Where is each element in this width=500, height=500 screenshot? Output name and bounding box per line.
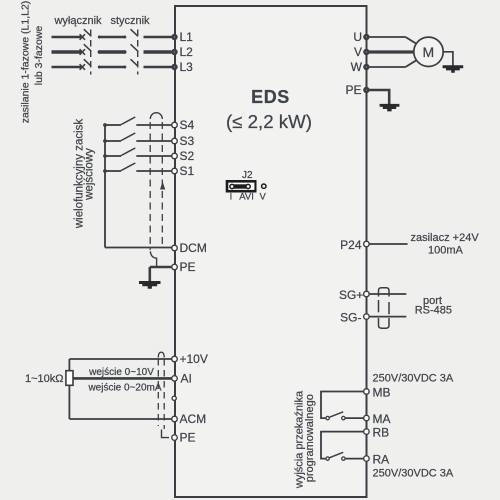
svg-text:EDS: EDS bbox=[251, 87, 290, 107]
svg-text:PE: PE bbox=[345, 83, 361, 97]
svg-text:S2: S2 bbox=[180, 149, 195, 163]
svg-text:L3: L3 bbox=[180, 60, 194, 74]
svg-text:RA: RA bbox=[373, 453, 390, 467]
svg-text:wyłącznik: wyłącznik bbox=[53, 15, 102, 27]
svg-text:SG-: SG- bbox=[340, 311, 361, 325]
svg-text:stycznik: stycznik bbox=[110, 15, 150, 27]
svg-text:W: W bbox=[351, 60, 363, 74]
svg-text:programowalnego: programowalnego bbox=[304, 394, 316, 482]
svg-text:S1: S1 bbox=[180, 164, 195, 178]
svg-text:S3: S3 bbox=[180, 134, 195, 148]
svg-text:zasilacz +24V: zasilacz +24V bbox=[411, 232, 480, 244]
svg-text:250V/30VDC 3A: 250V/30VDC 3A bbox=[373, 372, 454, 384]
svg-text:I: I bbox=[230, 192, 233, 203]
svg-text:100mA: 100mA bbox=[428, 245, 464, 257]
svg-text:J2: J2 bbox=[242, 170, 253, 181]
svg-text:(≤ 2,2 kW): (≤ 2,2 kW) bbox=[226, 111, 312, 132]
svg-text:RS-485: RS-485 bbox=[415, 305, 452, 317]
svg-text:S4: S4 bbox=[180, 118, 195, 132]
svg-text:P24: P24 bbox=[340, 238, 362, 252]
svg-text:U: U bbox=[353, 30, 362, 44]
svg-text:250V/30VDC 3A: 250V/30VDC 3A bbox=[373, 467, 454, 479]
svg-text:V: V bbox=[260, 192, 267, 203]
svg-text:L2: L2 bbox=[180, 45, 194, 59]
svg-text:lub 3-fazowe: lub 3-fazowe bbox=[33, 26, 45, 86]
svg-text:AI: AI bbox=[181, 372, 192, 386]
svg-text:DCM: DCM bbox=[180, 241, 207, 255]
svg-text:V: V bbox=[354, 45, 362, 59]
svg-text:SG+: SG+ bbox=[339, 288, 363, 302]
svg-text:wejście 0~20mA: wejście 0~20mA bbox=[87, 383, 161, 394]
svg-text:wejście 0~10V: wejście 0~10V bbox=[88, 367, 154, 378]
svg-text:zasilanie 1-fazowe (L1,L2): zasilanie 1-fazowe (L1,L2) bbox=[20, 1, 32, 124]
svg-text:+10V: +10V bbox=[180, 352, 208, 366]
svg-text:AVI: AVI bbox=[239, 192, 254, 203]
svg-text:MA: MA bbox=[373, 412, 391, 426]
svg-text:L1: L1 bbox=[180, 30, 194, 44]
svg-text:ACM: ACM bbox=[180, 412, 207, 426]
svg-text:M: M bbox=[422, 44, 434, 60]
svg-text:1~10kΩ: 1~10kΩ bbox=[25, 373, 64, 385]
svg-text:MB: MB bbox=[373, 386, 391, 400]
svg-text:PE: PE bbox=[180, 260, 196, 274]
svg-text:PE: PE bbox=[180, 431, 196, 445]
svg-text:wejściowy: wejściowy bbox=[84, 148, 96, 201]
svg-text:RB: RB bbox=[373, 426, 390, 440]
